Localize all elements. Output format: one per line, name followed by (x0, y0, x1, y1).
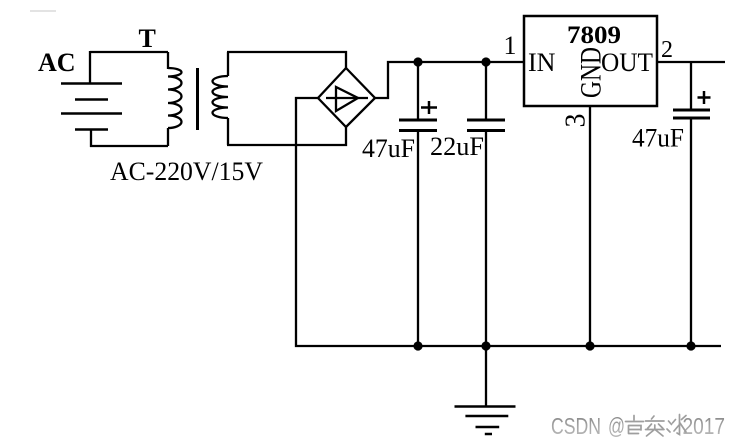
svg-text:OUT: OUT (601, 48, 653, 77)
svg-text:47uF: 47uF (632, 124, 684, 153)
svg-text:AC-220V/15V: AC-220V/15V (110, 157, 263, 186)
svg-text:2017: 2017 (683, 413, 726, 439)
svg-text:2: 2 (661, 37, 673, 63)
svg-text:1: 1 (504, 31, 517, 60)
svg-text:IN: IN (528, 48, 556, 77)
svg-text:T: T (139, 24, 156, 53)
svg-text:AC: AC (38, 48, 76, 77)
svg-text:@: @ (608, 413, 625, 439)
svg-text:47uF: 47uF (362, 134, 415, 163)
svg-text:CSDN: CSDN (551, 413, 601, 439)
svg-text:3: 3 (561, 114, 592, 128)
svg-text:7809: 7809 (567, 22, 621, 49)
svg-text:22uF: 22uF (430, 132, 484, 161)
svg-text:GND: GND (575, 47, 608, 98)
